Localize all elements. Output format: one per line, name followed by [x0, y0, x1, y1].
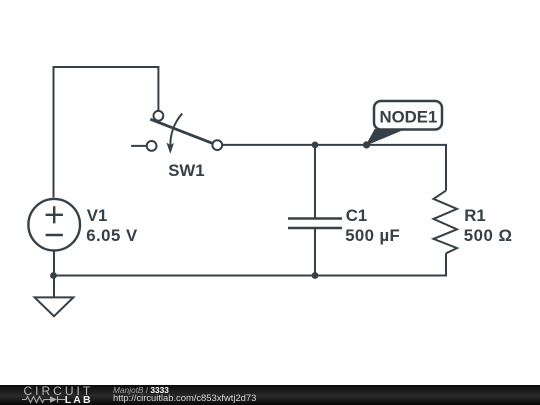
svg-text:6.05 V: 6.05 V: [86, 226, 138, 245]
svg-text:R1: R1: [464, 206, 485, 225]
svg-text:SW1: SW1: [168, 161, 204, 180]
svg-text:500 µF: 500 µF: [345, 226, 400, 245]
svg-text:V1: V1: [87, 206, 108, 225]
svg-text:C1: C1: [346, 206, 367, 225]
svg-text:NODE1: NODE1: [380, 107, 438, 126]
svg-text:500 Ω: 500 Ω: [464, 226, 513, 245]
